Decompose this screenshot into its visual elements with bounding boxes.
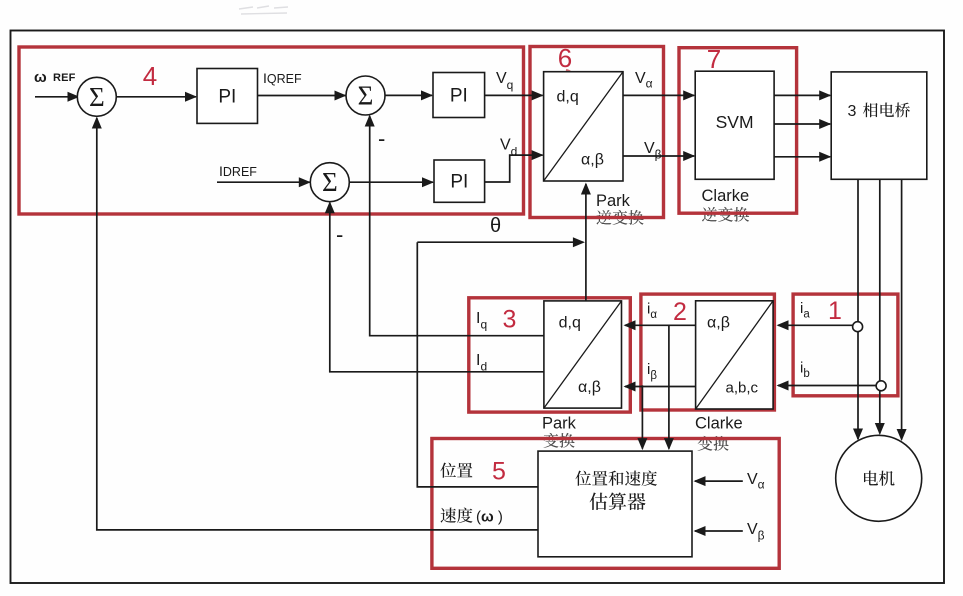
svg-text:SVM: SVM (716, 112, 754, 132)
svg-text:(ω ): (ω ) (476, 509, 503, 526)
svg-text:Park: Park (596, 192, 631, 210)
motor label CJK (864, 471, 895, 486)
wire: bridge phase a down to motor (853, 179, 863, 440)
wire: V alpha to SVM (623, 90, 695, 100)
svg-text:-: - (378, 126, 385, 151)
svg-text:PI: PI (450, 172, 468, 193)
Clarke transform box U2 (696, 301, 774, 409)
wire: V beta to SVM (623, 151, 695, 161)
region box 3 (Park transform) (469, 298, 631, 412)
svg-text:d,q: d,q (557, 89, 579, 106)
wire: S3 output to PI d block (349, 177, 434, 187)
wire: speed reference input into summer S1 (35, 92, 80, 102)
red fragment under region number 6 (566, 70, 572, 78)
region box 5 (position/speed estimator) (432, 439, 779, 569)
estimator label line2 CJK (590, 492, 646, 510)
wire: SVM phase c to bridge (774, 152, 831, 162)
svg-text:-: - (336, 222, 343, 247)
wire: SVM phase a to bridge (774, 90, 831, 100)
wire: SVM phase b to bridge (774, 119, 831, 129)
wire: Iq feedback to summer S2 (365, 115, 544, 336)
3-phase bridge block (831, 72, 927, 179)
region box 6 (inverse Park) (530, 47, 664, 218)
svg-text:7: 7 (707, 44, 721, 74)
svg-text:3: 3 (503, 306, 517, 334)
PI d-current controller block (434, 160, 485, 202)
current sensor b (876, 381, 886, 391)
label speed output CJK (441, 507, 473, 522)
svg-text:REF: REF (53, 72, 76, 84)
wire: position output from estimator (417, 242, 538, 487)
region box 2 (Clarke transform) (641, 294, 775, 410)
svg-text:1: 1 (828, 297, 842, 325)
svg-text:α,β: α,β (707, 315, 730, 332)
wire: bridge phase c down to motor (897, 179, 907, 441)
summing junction S2 (346, 76, 385, 115)
svg-text:Σ: Σ (358, 81, 374, 111)
svg-text:α,β: α,β (578, 379, 601, 396)
label inverse-transform CJK under box 7 (702, 207, 749, 222)
motor circle (836, 435, 922, 521)
wire: V alpha into estimator (694, 476, 743, 486)
label transform CJK under box 3 (544, 433, 575, 448)
PI q-current controller block (433, 73, 485, 118)
region box 1 (current sensing) (793, 294, 898, 396)
wire: i alpha branch down to estimator (664, 325, 674, 450)
position and speed estimator block U5 (538, 451, 692, 557)
label inverse-transform CJK under box 6 (596, 210, 643, 225)
svg-text:Σ: Σ (89, 82, 105, 112)
wire: bridge phase b down to motor (875, 179, 885, 435)
svg-text:α,β: α,β (581, 152, 604, 169)
wire: speed feedback to summer S1 (92, 117, 538, 530)
label position output CJK (440, 463, 472, 478)
wire: position/theta branch to Park transforms (417, 237, 585, 247)
svg-text:PI: PI (450, 86, 468, 107)
svg-text:ω: ω (34, 69, 47, 86)
wire: i beta to Park box (624, 382, 696, 392)
svg-text:Park: Park (542, 415, 577, 433)
svg-text:Σ: Σ (322, 167, 338, 197)
wire: Id feedback to summer S3 (325, 201, 544, 372)
svg-text:5: 5 (492, 458, 506, 486)
svg-text:2: 2 (673, 298, 687, 326)
svg-text:PI: PI (218, 87, 236, 108)
3-phase bridge label CJK (863, 102, 910, 117)
faint erased watermark remnant (239, 6, 288, 14)
wire: ib sensed current to Clarke box (777, 381, 877, 391)
svg-text:IQREF: IQREF (263, 70, 302, 86)
svg-text:IDREF: IDREF (219, 163, 257, 179)
inverse Park transform box U6 (544, 72, 623, 181)
wire: theta into inverse Park (581, 183, 591, 301)
svg-text:d,q: d,q (559, 315, 581, 332)
wire: IDREF input to summer S3 (217, 177, 311, 187)
wire: i beta branch down to estimator (637, 385, 647, 450)
summing junction S3 (310, 163, 349, 202)
svg-text:4: 4 (143, 61, 157, 91)
svg-text:θ: θ (490, 215, 501, 237)
label transform CJK under box 2 (698, 436, 729, 451)
wire: V beta into estimator (694, 526, 743, 536)
summing junction S1 (77, 77, 116, 116)
estimator label line1 CJK (575, 470, 657, 485)
svg-text:a,b,c: a,b,c (726, 380, 759, 397)
svg-text:Clarke: Clarke (702, 187, 750, 205)
svg-text:3: 3 (848, 103, 857, 120)
region box 7 (SVM / inverse Clarke) (679, 48, 797, 214)
SVM block U7 (695, 71, 774, 179)
Park transform box U3 (544, 301, 622, 408)
wire: i alpha to Park box (624, 320, 696, 330)
wire: S1 output to PI speed block (116, 92, 197, 102)
svg-text:Clarke: Clarke (695, 415, 743, 433)
wire: PI output IQREF to summer S2 (258, 91, 347, 101)
wire: ia sensed current to Clarke box (777, 320, 854, 330)
region box 4 (speed/current PI loops) (19, 47, 524, 214)
wire: S2 output to PI q block (385, 90, 434, 100)
svg-text:6: 6 (558, 43, 572, 73)
current sensor a (853, 322, 863, 332)
wire: Vd route into inverse Park box (485, 150, 544, 182)
PI speed controller block (197, 69, 258, 124)
wire: Vq into inverse Park box (485, 90, 544, 100)
